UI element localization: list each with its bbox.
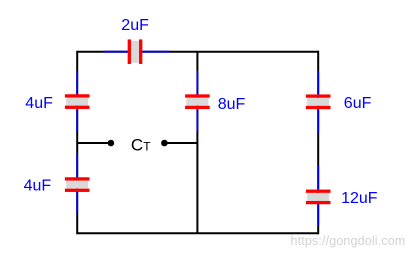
svg-text:12uF: 12uF [341, 190, 378, 207]
wire: C5 6uF top lead (blue) [317, 71, 319, 96]
wire: C3 lower 4uF top lead (blue) [76, 154, 78, 179]
capacitor C3 lower 4uF (left rail) [65, 177, 90, 192]
capacitor C6 12uF (right rail) [306, 190, 331, 205]
wire: C2 upper 4uF bottom lead (blue) [76, 108, 78, 132]
svg-text:C: C [131, 136, 143, 155]
capacitor C1 2uF (horizontal, top rail) [128, 39, 143, 64]
svg-text:6uF: 6uF [344, 95, 372, 112]
wire: right rail [317, 51, 319, 235]
svg-text:4uF: 4uF [24, 178, 52, 195]
wire: CT left stub [77, 142, 111, 144]
wire: C6 12uF top lead (blue) [317, 166, 319, 191]
wire: top rail [77, 51, 318, 53]
capacitor C5 6uF (right rail) [306, 94, 331, 109]
svg-text:4uF: 4uF [25, 95, 53, 112]
wire: C1 2uF right lead (blue) [141, 51, 170, 53]
wire: C1 2uF left lead (blue) [104, 51, 130, 53]
wire: C4 8uF top lead (blue) [196, 71, 198, 96]
svg-text:T: T [143, 140, 151, 154]
wire: middle branch [196, 52, 198, 234]
svg-text:2uF: 2uF [121, 17, 149, 34]
wire: C3 lower 4uF bottom lead (blue) [76, 190, 78, 213]
wire: C2 upper 4uF top lead (blue) [76, 71, 78, 96]
wire: CT right stub [164, 142, 197, 144]
node CT left terminal dot [108, 140, 115, 147]
wire: C6 12uF bottom lead (blue) [317, 203, 319, 226]
label CT [131, 136, 151, 155]
capacitor C4 8uF (middle branch) [185, 94, 210, 109]
node CT right terminal dot [161, 140, 168, 147]
wire: left rail [76, 51, 78, 235]
wire: C5 6uF bottom lead (blue) [317, 108, 319, 133]
wire: bottom rail [77, 232, 318, 234]
wire: C4 8uF bottom lead (blue) [196, 108, 198, 132]
svg-text:8uF: 8uF [218, 96, 246, 113]
svg-text:https://gongdoli.com: https://gongdoli.com [291, 234, 406, 248]
capacitor C2 upper 4uF (left rail) [65, 94, 90, 109]
